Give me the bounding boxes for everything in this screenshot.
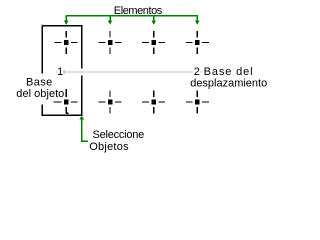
green arrow col 3 bbox=[151, 16, 156, 25]
green select-objects callout arrow bbox=[79, 116, 88, 142]
svg-text:1: 1 bbox=[57, 66, 63, 78]
gray displacement line from point 1 to point 2 bbox=[56, 71, 202, 73]
white halo behind label 2 bbox=[193, 65, 200, 77]
green arrow col 4 bbox=[195, 16, 200, 25]
marker row1 col3 bbox=[142, 31, 165, 54]
green arrow col 1 bbox=[64, 16, 69, 25]
white gap in rectangle right edge where gray line crosses bbox=[79, 69, 84, 76]
svg-text:Base del: Base del bbox=[204, 66, 253, 78]
marker row2 col1 (object base point) bbox=[55, 91, 78, 114]
green arrow col 2 bbox=[108, 16, 113, 25]
marker row2 col4 bbox=[186, 91, 209, 114]
svg-text:Seleccione: Seleccione bbox=[93, 129, 145, 141]
green elements bracket line bbox=[66, 15, 198, 17]
marker row2 col2 bbox=[99, 91, 122, 114]
white halo behind Base del objeto label block bbox=[10, 73, 65, 104]
gray tick at point 1 bbox=[63, 70, 65, 74]
extended top dash of base marker bbox=[65, 89, 67, 93]
svg-text:2: 2 bbox=[194, 66, 200, 78]
white halo behind label 1 bbox=[58, 66, 63, 77]
svg-text:Base: Base bbox=[26, 77, 52, 89]
extended left dash of base marker bbox=[53, 101, 55, 103]
svg-text:desplazamiento: desplazamiento bbox=[190, 77, 267, 89]
svg-text:Elementos: Elementos bbox=[114, 5, 163, 17]
hook at bottom dash of base marker bbox=[66, 112, 68, 114]
svg-text:Objetos: Objetos bbox=[89, 141, 129, 153]
stray green pixel at rectangle corner bbox=[42, 25, 44, 27]
svg-text:del objeto: del objeto bbox=[16, 88, 64, 100]
marker row1 col1 bbox=[55, 31, 78, 54]
marker row1 col2 bbox=[99, 31, 122, 54]
marker row1 col4 bbox=[186, 31, 209, 54]
marker row2 col3 bbox=[142, 91, 165, 114]
selection rectangle (window) bbox=[42, 26, 81, 116]
